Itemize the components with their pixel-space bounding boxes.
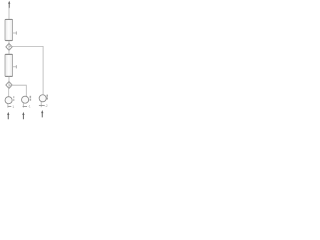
stream arrow out middle	[22, 112, 24, 119]
column T1	[5, 19, 13, 40]
svg-text:-2: -2	[45, 104, 48, 108]
outlet stub E1	[7, 104, 9, 108]
wire V1 to column T2	[8, 50, 10, 54]
column T2 bottom head line	[5, 75, 12, 77]
cooler E3 (right circle)	[39, 95, 46, 102]
stream arrow out right	[41, 110, 43, 117]
port anchors right of E2	[30, 96, 32, 98]
branch wire from V2 to middle drop	[9, 85, 26, 96]
valve V2 (diamond)	[6, 82, 12, 89]
outlet bar E3	[39, 104, 45, 106]
svg-text:1: 1	[12, 105, 14, 109]
material stream arrow S1 (feed, top)	[8, 1, 10, 8]
wire through valve V1	[8, 43, 10, 50]
wire feed to column T1	[8, 8, 10, 20]
column T1 bottom head line	[5, 39, 12, 41]
outlet stub E3	[40, 102, 42, 107]
wire column T2 to valve V2	[8, 77, 10, 89]
column T2	[5, 54, 13, 76]
wire V2 to cooler E1	[8, 89, 10, 97]
svg-text:-1: -1	[28, 104, 31, 108]
cooler E1 (left circle)	[5, 97, 12, 104]
nozzle end bar T1	[15, 31, 17, 34]
port anchors right of E3	[47, 95, 49, 97]
wire through valve V2	[8, 82, 10, 89]
outlet stub E2	[22, 103, 24, 107]
stream arrow out left	[7, 112, 9, 119]
nozzle tick on column T2	[13, 66, 16, 68]
outlet bar E2	[23, 106, 27, 108]
branch wire from V1 to right drop	[9, 46, 43, 94]
wire column T1 to valve V1	[8, 41, 10, 51]
column T1 top head line	[5, 19, 12, 21]
nozzle tick on column T1	[13, 32, 16, 34]
port anchors right of E1	[13, 96, 14, 98]
nozzle end bar T2	[15, 65, 17, 68]
valve V1 (diamond)	[6, 43, 12, 50]
outlet bar E1	[8, 105, 12, 107]
column T2 top head line	[5, 54, 12, 56]
cooler E2 (middle circle)	[22, 96, 29, 103]
